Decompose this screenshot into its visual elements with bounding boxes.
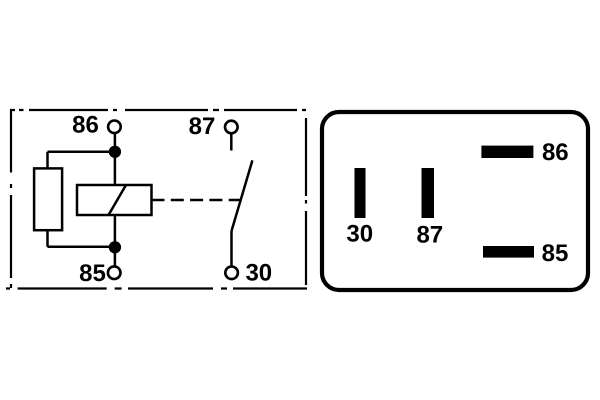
svg-text:87: 87 <box>189 113 216 140</box>
svg-text:85: 85 <box>79 260 106 287</box>
svg-text:86: 86 <box>72 111 99 138</box>
svg-text:85: 85 <box>542 240 569 267</box>
svg-text:30: 30 <box>245 260 272 287</box>
svg-text:30: 30 <box>346 221 373 248</box>
svg-text:87: 87 <box>416 222 443 249</box>
svg-text:86: 86 <box>542 139 569 166</box>
